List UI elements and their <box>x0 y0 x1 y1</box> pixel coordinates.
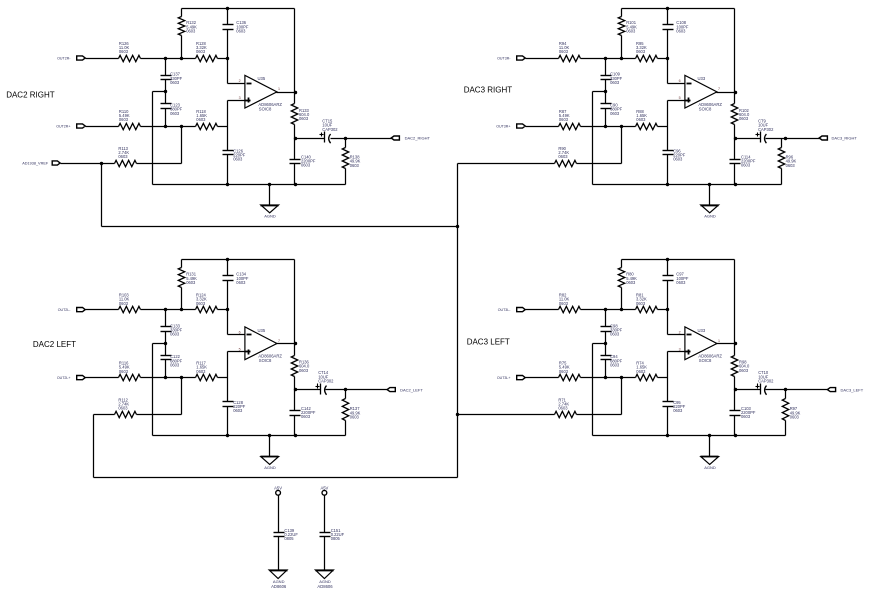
svg-text:0603: 0603 <box>119 301 129 306</box>
svg-text:0603: 0603 <box>118 406 128 411</box>
svg-text:U35: U35 <box>258 328 266 333</box>
svg-text:OUT2L+: OUT2L+ <box>57 376 71 380</box>
svg-text:0603: 0603 <box>170 80 180 85</box>
svg-text:0603: 0603 <box>636 369 646 374</box>
svg-text:0603: 0603 <box>186 280 196 285</box>
svg-text:A5V: A5V <box>320 486 328 491</box>
svg-text:0603: 0603 <box>739 368 749 373</box>
svg-text:0603: 0603 <box>636 49 646 54</box>
svg-text:AGND: AGND <box>264 465 276 470</box>
svg-text:0603: 0603 <box>610 80 620 85</box>
svg-text:0603: 0603 <box>118 154 128 159</box>
svg-text:7: 7 <box>718 87 720 91</box>
svg-text:0603: 0603 <box>196 301 206 306</box>
svg-text:0603: 0603 <box>676 280 686 285</box>
svg-text:CAP302: CAP302 <box>758 378 774 383</box>
svg-text:0603: 0603 <box>236 280 246 285</box>
svg-text:U33: U33 <box>698 76 706 81</box>
svg-text:3: 3 <box>679 348 681 352</box>
svg-text:1: 1 <box>718 339 720 343</box>
svg-text:0805: 0805 <box>284 536 294 541</box>
svg-text:0603: 0603 <box>186 28 196 33</box>
svg-text:SOIC8: SOIC8 <box>699 106 712 111</box>
svg-text:DAC3 LEFT: DAC3 LEFT <box>467 337 510 346</box>
svg-text:0603: 0603 <box>741 414 751 419</box>
svg-text:6: 6 <box>239 331 241 335</box>
svg-text:3: 3 <box>239 96 241 100</box>
svg-text:DAC3_LEFT: DAC3_LEFT <box>841 387 864 392</box>
svg-text:0603: 0603 <box>299 368 309 373</box>
svg-text:0603: 0603 <box>790 414 800 419</box>
svg-text:0603: 0603 <box>170 111 180 116</box>
svg-text:0603: 0603 <box>233 157 243 162</box>
svg-text:OUT3R-: OUT3R- <box>497 57 511 61</box>
svg-text:5: 5 <box>679 96 681 100</box>
svg-text:0603: 0603 <box>299 116 309 121</box>
svg-text:AD8606: AD8606 <box>317 584 333 589</box>
svg-text:0603: 0603 <box>119 117 129 122</box>
svg-text:AGND: AGND <box>264 213 276 218</box>
svg-text:SOIC8: SOIC8 <box>259 358 272 363</box>
svg-text:0603: 0603 <box>786 163 796 168</box>
svg-text:0603: 0603 <box>559 369 569 374</box>
svg-text:0603: 0603 <box>636 301 646 306</box>
svg-text:0603: 0603 <box>610 362 620 367</box>
svg-text:2: 2 <box>239 79 241 83</box>
svg-text:OUT3R+: OUT3R+ <box>496 125 510 129</box>
svg-text:0603: 0603 <box>558 406 568 411</box>
svg-text:U35: U35 <box>258 76 266 81</box>
svg-text:CAP302: CAP302 <box>318 378 334 383</box>
svg-text:0603: 0603 <box>170 332 180 337</box>
svg-text:CAP302: CAP302 <box>758 127 774 132</box>
svg-text:DAC3_RIGHT: DAC3_RIGHT <box>832 136 858 141</box>
svg-text:SOIC8: SOIC8 <box>259 106 272 111</box>
svg-text:0603: 0603 <box>626 280 636 285</box>
svg-text:0603: 0603 <box>610 111 620 116</box>
svg-text:0603: 0603 <box>673 408 683 413</box>
svg-text:AD8606: AD8606 <box>271 584 287 589</box>
svg-text:0603: 0603 <box>559 49 569 54</box>
svg-text:6: 6 <box>679 79 681 83</box>
svg-text:SOIC8: SOIC8 <box>699 358 712 363</box>
svg-text:0603: 0603 <box>676 28 686 33</box>
svg-text:AD1938_VREF: AD1938_VREF <box>22 161 49 165</box>
svg-text:0603: 0603 <box>626 28 636 33</box>
svg-text:5: 5 <box>239 348 241 352</box>
svg-text:OUT3L-: OUT3L- <box>498 308 512 312</box>
svg-text:U33: U33 <box>698 328 706 333</box>
svg-text:0603: 0603 <box>558 154 568 159</box>
svg-text:0603: 0603 <box>741 163 751 168</box>
svg-text:DAC2_RIGHT: DAC2_RIGHT <box>405 136 431 141</box>
svg-text:0603: 0603 <box>119 49 129 54</box>
svg-text:DAC3 RIGHT: DAC3 RIGHT <box>464 86 513 95</box>
svg-text:A5V: A5V <box>274 486 282 491</box>
svg-text:0603: 0603 <box>196 117 206 122</box>
svg-text:OUT2R+: OUT2R+ <box>56 125 70 129</box>
svg-text:AGND: AGND <box>704 213 716 218</box>
svg-text:0603: 0603 <box>350 163 360 168</box>
svg-text:0603: 0603 <box>119 369 129 374</box>
svg-text:0603: 0603 <box>196 369 206 374</box>
svg-text:0603: 0603 <box>301 163 311 168</box>
svg-text:0603: 0603 <box>233 408 243 413</box>
svg-text:CAP302: CAP302 <box>322 127 338 132</box>
svg-text:DAC2_LEFT: DAC2_LEFT <box>400 387 423 392</box>
svg-text:0603: 0603 <box>636 117 646 122</box>
svg-text:AGND: AGND <box>704 465 716 470</box>
svg-text:0603: 0603 <box>350 414 360 419</box>
svg-text:OUT2L-: OUT2L- <box>58 308 72 312</box>
svg-text:0603: 0603 <box>559 301 569 306</box>
svg-text:OUT2R-: OUT2R- <box>57 57 71 61</box>
svg-text:0603: 0603 <box>196 49 206 54</box>
svg-text:7: 7 <box>278 339 280 343</box>
svg-text:0603: 0603 <box>301 414 311 419</box>
svg-text:OUT3L+: OUT3L+ <box>497 376 511 380</box>
svg-text:0603: 0603 <box>739 116 749 121</box>
svg-text:0603: 0603 <box>236 28 246 33</box>
svg-text:0603: 0603 <box>673 157 683 162</box>
svg-text:DAC2 LEFT: DAC2 LEFT <box>33 340 76 349</box>
svg-text:0603: 0603 <box>559 117 569 122</box>
svg-text:0603: 0603 <box>610 332 620 337</box>
svg-text:DAC2 RIGHT: DAC2 RIGHT <box>6 90 55 99</box>
svg-text:0805: 0805 <box>331 536 341 541</box>
svg-text:2: 2 <box>679 331 681 335</box>
svg-text:0603: 0603 <box>170 362 180 367</box>
svg-text:1: 1 <box>278 87 280 91</box>
